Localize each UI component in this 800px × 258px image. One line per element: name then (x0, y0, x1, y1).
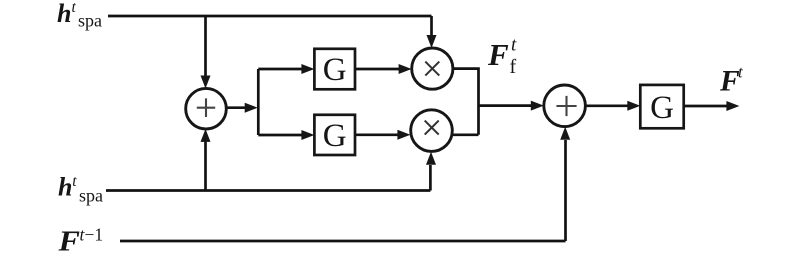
arrowhead at branch node (245, 103, 258, 113)
arrowhead into adder A2 bottom (560, 127, 570, 140)
arrowhead into multiplier M2 bottom (426, 152, 436, 165)
wire adder A1 output to branch node (227, 106, 247, 109)
multiplier M2 (411, 110, 453, 152)
svg-text:t: t (72, 173, 77, 190)
svg-text:F: F (57, 226, 80, 258)
multiplier M1 (412, 48, 453, 89)
gate G2 (314, 115, 355, 155)
wire rise from F^{t-1} bus to adder A2 (564, 140, 567, 241)
wire gate G1 to multiplier M1 (355, 68, 399, 71)
arrowhead into gate G1 (301, 64, 314, 74)
wire multiplier M2 output to merge (453, 133, 479, 136)
svg-text:spa: spa (79, 185, 103, 205)
label h^t_spa (bottom input) (58, 173, 103, 206)
wire gate G2 to multiplier M2 (355, 133, 398, 136)
svg-text:t: t (738, 62, 743, 81)
arrowhead into multiplier M2 (397, 130, 410, 140)
wire branch vertical (257, 69, 260, 135)
svg-text:h: h (57, 0, 71, 28)
svg-text:G: G (323, 118, 347, 154)
wire gate G3 to output F^t (684, 105, 727, 108)
svg-text:h: h (58, 173, 72, 202)
svg-text:t: t (72, 0, 77, 16)
gate G3 (640, 85, 683, 128)
svg-text:F: F (719, 66, 740, 98)
wire drop from top bus to multiplier M1 (430, 16, 433, 36)
wire branch to gate G1 (258, 68, 302, 71)
wire drop from top bus to adder A1 (204, 16, 207, 76)
wire adder A2 to gate G3 (585, 104, 628, 107)
label F^t (output) (719, 62, 743, 97)
arrowhead at output F^t (726, 101, 739, 111)
wire merge node to adder A2 (479, 104, 532, 107)
svg-text:spa: spa (78, 11, 102, 31)
wire top h_spa bus (108, 15, 432, 18)
wire branch to gate G2 (258, 134, 302, 137)
label F_f^t (fused feature node) (487, 35, 517, 79)
wire rise from bottom bus to adder A1 (204, 141, 207, 191)
arrowhead into gate G3 (627, 101, 640, 111)
svg-text:G: G (323, 52, 347, 88)
svg-text:t: t (511, 35, 517, 56)
gate G1 (314, 49, 355, 90)
wire F^{t-1} bus (120, 240, 566, 243)
arrowhead into multiplier M1 (399, 64, 412, 74)
label h^t_spa (top input) (57, 0, 102, 31)
adder A2 (544, 85, 586, 127)
arrowhead into multiplier M1 top (427, 35, 437, 48)
label F^{t-1} (bottom input) (57, 224, 103, 257)
svg-text:−1: −1 (85, 224, 104, 244)
adder A1 (186, 88, 227, 129)
arrowhead into gate G2 (301, 130, 314, 140)
wire multiplier M1 output to merge (453, 69, 479, 135)
arrowhead into adder A2 (531, 101, 544, 111)
svg-text:f: f (510, 56, 517, 78)
arrowhead into adder A1 bottom (201, 129, 211, 142)
arrowhead into adder A1 top (201, 76, 211, 89)
wire bottom h_spa bus (106, 189, 430, 192)
svg-text:F: F (487, 37, 509, 72)
wire rise from bottom bus to multiplier M2 (429, 165, 432, 191)
svg-text:G: G (650, 90, 674, 126)
